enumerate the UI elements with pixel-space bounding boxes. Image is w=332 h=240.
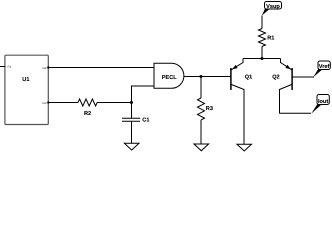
node B junction dot [200,75,203,78]
wire P1 stub [0,66,6,68]
wire Q2 base to Vref [292,76,314,78]
transistor Q2 [272,59,311,114]
IC U1 box [5,55,48,124]
wire Q2 emitter to common node [262,58,281,60]
svg-text:R2: R2 [84,111,91,117]
wire PECL output to Q1 base [184,76,231,78]
svg-text:Iout: Iout [318,99,328,105]
svg-text:out: out [42,66,47,70]
resistor R1 [259,16,275,59]
wire Q1 emitter to common node [243,58,262,60]
capacitor C1 [122,103,149,144]
net tag Iout [311,95,329,114]
pin label P1 [8,65,12,69]
svg-text:R3: R3 [206,106,213,112]
net tag Vsup [262,2,282,16]
pin label out (lower) [42,101,47,105]
transistor Q1 [231,59,252,145]
resistor R2 [78,99,97,117]
wire U1 lower out to R2 [48,102,78,104]
ground below C1 [124,143,139,150]
node A junction dot [130,101,133,104]
svg-text:Vref: Vref [319,63,330,70]
svg-text:Q2: Q2 [272,75,279,81]
pin dot upper out [47,66,49,68]
ground below R3 [194,144,209,151]
svg-text:PECL: PECL [162,75,178,81]
svg-text:out: out [42,101,47,105]
common emitter node dot [261,57,264,60]
svg-text:Q1: Q1 [245,74,252,80]
resistor R3 [198,77,213,145]
net tag Vref [313,61,330,77]
wire node A to PECL input B [132,86,155,103]
svg-text:U1: U1 [22,77,29,83]
svg-text:R1: R1 [267,36,274,42]
ground below Q1 collector [237,144,252,151]
gate PECL [154,63,184,88]
svg-text:P1: P1 [8,65,12,69]
svg-text:Vsup: Vsup [266,4,280,10]
pin dot lower out [47,101,49,103]
wire R2 to node A [97,102,132,104]
wire U1 upper out to PECL input A [48,67,154,69]
U1 label [22,77,29,83]
pin label out (upper) [42,66,47,70]
svg-text:C1: C1 [142,118,149,124]
